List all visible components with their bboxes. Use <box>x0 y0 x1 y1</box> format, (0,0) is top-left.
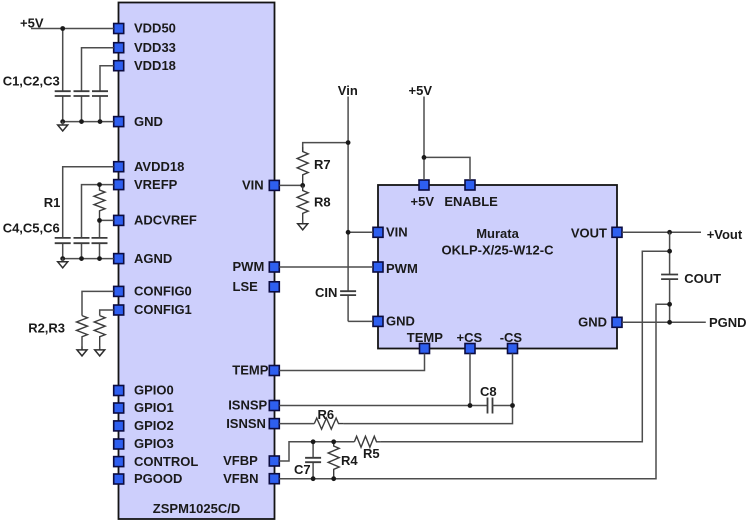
U1 pin AGND <box>114 251 173 266</box>
U2 pin -CS <box>500 330 523 354</box>
wire GND to PGND <box>622 321 706 323</box>
U1 pin ISNSP <box>228 398 279 413</box>
resistor R4 <box>328 442 339 479</box>
junction GND rail C3 <box>98 119 103 124</box>
junction VOUT/COUT <box>667 230 672 235</box>
svg-text:GND: GND <box>578 315 607 330</box>
ground (R3) <box>99 346 101 350</box>
junction C7 top <box>311 439 316 444</box>
svg-text:R6: R6 <box>318 407 335 422</box>
wire ISNSN to R6 <box>279 423 314 425</box>
svg-text:+5V: +5V <box>409 83 433 98</box>
svg-text:Murata: Murata <box>476 226 519 241</box>
wire CONFIG1 branch <box>100 310 114 316</box>
U1 pin VFBN <box>223 471 279 486</box>
module U2 Murata OKLP-X/25-W12-C body <box>378 185 617 349</box>
svg-text:GND: GND <box>134 114 163 129</box>
U2 pin +CS <box>457 330 483 354</box>
U1 pin VFBP <box>223 453 279 468</box>
junction ISNSP/+CS <box>468 403 473 408</box>
U1 pin ADCVREF <box>114 213 197 228</box>
U2 pin VOUT <box>571 226 622 241</box>
svg-text:VOUT: VOUT <box>571 226 607 241</box>
svg-text:GPIO0: GPIO0 <box>134 383 174 398</box>
svg-text:C7: C7 <box>294 462 311 477</box>
junction AGND rail C5 <box>79 256 84 261</box>
svg-text:+CS: +CS <box>457 330 483 345</box>
wire +5V branch to ENABLE <box>424 157 470 180</box>
svg-text:R8: R8 <box>314 195 331 210</box>
capacitor C7 <box>312 442 314 479</box>
wire GND rail <box>63 121 114 123</box>
junction +5V <box>60 26 65 31</box>
wire PWM <box>279 266 373 268</box>
svg-text:VREFP: VREFP <box>134 177 178 192</box>
svg-text:ISNSN: ISNSN <box>226 416 266 431</box>
svg-text:VDD50: VDD50 <box>134 21 176 36</box>
svg-text:CONFIG0: CONFIG0 <box>134 284 192 299</box>
svg-text:PGOOD: PGOOD <box>134 471 182 486</box>
U1 pin TEMP <box>232 363 279 378</box>
U2 pin VIN <box>373 225 408 240</box>
capacitor C8 <box>488 398 493 414</box>
junction R1 top <box>97 182 102 187</box>
junction PGND/COUT <box>667 320 672 325</box>
junction R1 bottom <box>97 218 102 223</box>
junction R7/R8 tap <box>300 183 305 188</box>
U1 pin PGOOD <box>114 471 183 486</box>
svg-text:PWM: PWM <box>386 261 418 276</box>
wire VFBN rail <box>279 304 669 478</box>
U2 pin PWM <box>373 261 418 276</box>
svg-text:TEMP: TEMP <box>232 363 268 378</box>
U1 pin CONFIG1 <box>114 302 192 317</box>
svg-text:LSE: LSE <box>233 279 259 294</box>
wire VDD33 branch <box>82 48 114 122</box>
junction AGND rail C6 <box>97 256 102 261</box>
junction sense B <box>667 302 672 307</box>
svg-text:+Vout: +Vout <box>707 227 743 242</box>
wire Vin to R7 <box>303 143 348 152</box>
resistor R7 <box>297 147 308 185</box>
U2 pin TEMP <box>407 330 443 354</box>
U1 pin PWM <box>233 259 280 274</box>
junction C8/-CS <box>510 403 515 408</box>
U1 pin ISNSN <box>226 416 279 431</box>
ground (R2) <box>81 346 83 350</box>
junction R4 top <box>331 439 336 444</box>
svg-text:C4,C5,C6: C4,C5,C6 <box>3 221 60 236</box>
svg-text:ZSPM1025C/D: ZSPM1025C/D <box>153 501 240 516</box>
U1 pin GND <box>114 114 163 129</box>
svg-text:-CS: -CS <box>500 330 523 345</box>
U1 pin VREFP <box>114 177 178 192</box>
wire AGND rail <box>63 258 114 260</box>
wire GND to U2 GND <box>348 320 373 322</box>
junction C7 bottom <box>311 476 316 481</box>
svg-text:OKLP-X/25-W12-C: OKLP-X/25-W12-C <box>442 243 555 258</box>
svg-text:GPIO3: GPIO3 <box>134 436 174 451</box>
capacitor C1 <box>55 91 71 96</box>
U1 pin GPIO2 <box>114 418 174 433</box>
wire VFBP riser <box>279 442 354 461</box>
U1 pin GPIO0 <box>114 383 174 398</box>
wire +CS down <box>469 354 471 406</box>
ground (C4,C5,C6) <box>62 258 64 262</box>
IC U1 ZSPM1025C/D body <box>119 3 275 520</box>
svg-text:CONTROL: CONTROL <box>134 454 198 469</box>
svg-text:PWM: PWM <box>233 259 265 274</box>
svg-text:R7: R7 <box>314 157 331 172</box>
svg-text:R1: R1 <box>44 195 61 210</box>
U1 pin GPIO3 <box>114 436 174 451</box>
U2 pin ENABLE <box>444 180 498 209</box>
wire R7/R8 tap to VIN pin <box>279 184 302 186</box>
svg-text:VFBN: VFBN <box>223 471 258 486</box>
wire ISNSP to C8 <box>279 405 487 407</box>
svg-text:VDD18: VDD18 <box>134 58 176 73</box>
wire VREFP branch <box>82 185 114 259</box>
junction Vin/U2 VIN <box>346 230 351 235</box>
junction sense A <box>667 249 672 254</box>
junction GND rail C1 <box>60 119 65 124</box>
junction Vin/R7 <box>346 140 351 145</box>
U1 pin VDD50 <box>114 21 176 36</box>
ground (R8) <box>302 220 304 224</box>
svg-text:VIN: VIN <box>386 225 408 240</box>
U1 pin VDD18 <box>114 58 176 73</box>
U1 pin VDD33 <box>114 40 176 55</box>
U1 pin AVDD18 <box>114 159 185 174</box>
resistor R1 <box>94 185 105 221</box>
wire CONFIG0 branch <box>82 291 114 315</box>
wire -CS down <box>343 354 512 424</box>
svg-text:COUT: COUT <box>684 271 721 286</box>
resistor R8 <box>297 185 308 220</box>
capacitor C3 <box>92 91 108 96</box>
svg-text:TEMP: TEMP <box>407 330 443 345</box>
svg-text:ISNSP: ISNSP <box>228 398 267 413</box>
wire COUT column <box>669 232 671 322</box>
svg-text:AGND: AGND <box>134 251 172 266</box>
svg-text:ENABLE: ENABLE <box>444 194 498 209</box>
svg-text:CONFIG1: CONFIG1 <box>134 302 192 317</box>
junction AGND rail C4 <box>60 256 65 261</box>
capacitor C2 <box>74 91 90 96</box>
svg-text:GPIO1: GPIO1 <box>134 400 174 415</box>
wire Vin to U2 VIN <box>348 231 373 233</box>
capacitor CIN <box>340 291 356 295</box>
svg-text:R5: R5 <box>363 446 380 461</box>
svg-text:CIN: CIN <box>315 285 337 300</box>
svg-text:PGND: PGND <box>709 315 746 330</box>
wire +5V down to ground rail <box>62 29 64 122</box>
junction +5V/ENABLE <box>422 155 427 160</box>
U1 pin CONTROL <box>114 454 199 469</box>
svg-text:+5V: +5V <box>411 194 435 209</box>
U1 pin VIN <box>242 178 279 193</box>
wire +5V vertical <box>423 97 425 181</box>
resistor R2 <box>77 316 88 349</box>
wire VOUT to +Vout <box>622 231 701 233</box>
capacitor C6 <box>92 238 108 243</box>
resistor R3 <box>94 316 105 349</box>
svg-text:AVDD18: AVDD18 <box>134 159 184 174</box>
wire TEMP <box>279 354 424 371</box>
resistor R6 <box>314 418 343 429</box>
capacitor COUT <box>661 275 678 280</box>
wire ADCVREF branch <box>100 220 114 258</box>
svg-text:C1,C2,C3: C1,C2,C3 <box>3 74 60 89</box>
svg-text:VDD33: VDD33 <box>134 40 176 55</box>
svg-text:ADCVREF: ADCVREF <box>134 213 197 228</box>
wire AVDD18 branch <box>63 167 114 259</box>
svg-text:C8: C8 <box>480 384 497 399</box>
svg-text:GPIO2: GPIO2 <box>134 418 174 433</box>
wire R5 to +Vout sense <box>381 251 670 442</box>
wire C8 to -CS <box>493 405 513 407</box>
capacitor C4 <box>55 238 71 243</box>
U2 pin GND2 <box>578 315 622 330</box>
wire VDD18 branch <box>100 66 114 122</box>
junction GND rail C2 <box>79 119 84 124</box>
capacitor C5 <box>74 238 90 243</box>
svg-text:GND: GND <box>386 314 415 329</box>
svg-text:VFBP: VFBP <box>223 453 258 468</box>
resistor R5 <box>354 436 381 447</box>
wire Vin vertical <box>347 97 349 322</box>
U1 pin GPIO1 <box>114 400 174 415</box>
U1 pin CONFIG0 <box>114 284 192 299</box>
svg-text:R4: R4 <box>341 453 358 468</box>
wire +5V to VDD50 <box>31 28 114 30</box>
ground (C1,C2,C3) <box>62 122 64 126</box>
svg-text:Vin: Vin <box>338 83 358 98</box>
junction R4 bottom <box>331 476 336 481</box>
svg-text:R2,R3: R2,R3 <box>28 321 65 336</box>
U1 pin LSE <box>233 279 280 294</box>
U2 pin GND <box>373 314 415 329</box>
U2 pin +5V <box>411 180 435 209</box>
svg-text:VIN: VIN <box>242 178 264 193</box>
